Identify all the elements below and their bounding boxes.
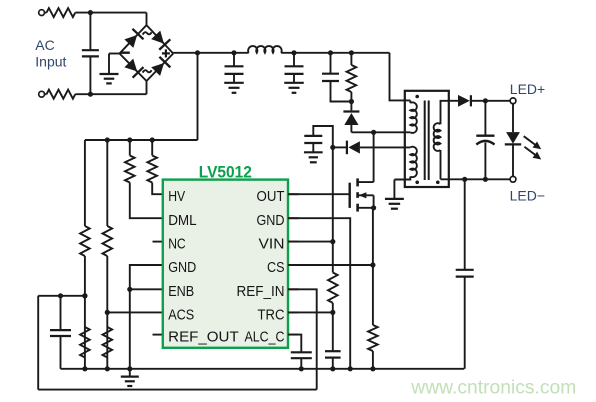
svg-text:VIN: VIN	[259, 236, 285, 253]
svg-text:www.cntronics.com: www.cntronics.com	[410, 377, 576, 399]
svg-text:CS: CS	[267, 259, 285, 276]
svg-text:GND: GND	[257, 212, 285, 229]
svg-text:OUT: OUT	[257, 188, 285, 205]
svg-text:LED−: LED−	[510, 188, 545, 204]
svg-text:HV: HV	[168, 188, 185, 205]
svg-text:ALC_C: ALC_C	[245, 329, 285, 346]
svg-text:LV5012: LV5012	[199, 163, 252, 181]
svg-text:ACS: ACS	[168, 306, 194, 323]
svg-text:REF_OUT: REF_OUT	[168, 329, 239, 346]
svg-text:LED+: LED+	[510, 81, 545, 97]
svg-text:REF_IN: REF_IN	[237, 283, 285, 300]
svg-text:ENB: ENB	[168, 283, 194, 300]
svg-text:TRC: TRC	[258, 306, 285, 323]
svg-text:NC: NC	[168, 236, 186, 253]
svg-text:GND: GND	[168, 259, 196, 276]
svg-text:AC: AC	[35, 37, 54, 53]
svg-text:Input: Input	[35, 54, 66, 70]
svg-text:DML: DML	[168, 212, 197, 229]
